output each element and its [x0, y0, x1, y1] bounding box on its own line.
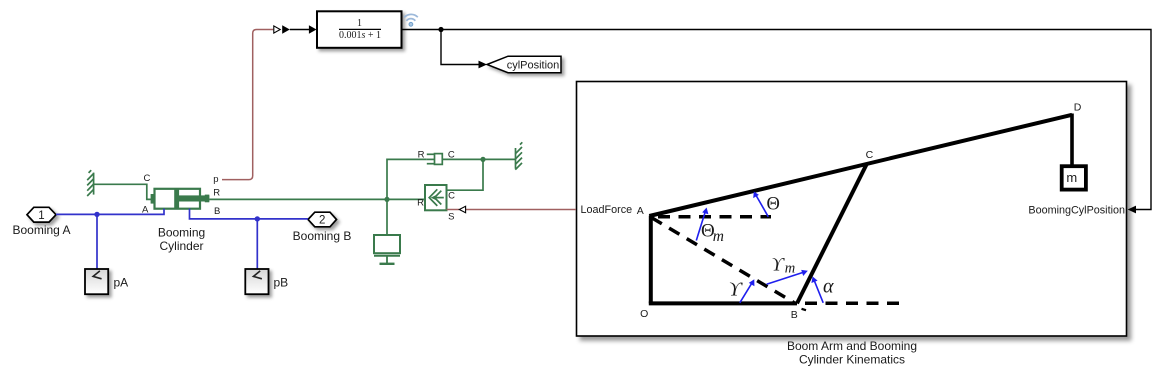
sketch: rope D to mass [1070, 114, 1074, 167]
svg-text:D: D [1074, 101, 1082, 113]
transfer fcn block [317, 11, 402, 48]
damper body [435, 154, 443, 165]
svg-text:C: C [144, 173, 151, 184]
sketch: mass m box [1062, 166, 1086, 189]
wire: LoadForce (red) from subsystem to force source S [466, 209, 576, 211]
wire: PS p-line (red) from cylinder p port up to converter [222, 30, 273, 180]
angle arrow gamma [740, 279, 755, 303]
arrowhead into transfer fcn [309, 25, 317, 33]
angle arrow theta_m [696, 208, 708, 241]
wire: branch to goto tag [441, 30, 479, 65]
svg-text:S: S [448, 212, 454, 223]
svg-text:R: R [418, 150, 425, 161]
mass block [374, 235, 400, 253]
wire: transfer fcn output across top [402, 30, 1152, 210]
svg-text:Boom Arm and Booming: Boom Arm and Booming [787, 339, 917, 353]
subsystem box Boom Arm and Booming Cylinder Kinematics [577, 82, 1127, 337]
wire: cylinder R to force source R (green) [209, 198, 425, 200]
hollow PS arrowhead at S [459, 206, 465, 212]
angle arrow theta [753, 192, 768, 217]
svg-text:m: m [785, 260, 795, 276]
svg-text:1: 1 [38, 210, 44, 222]
junction pA [94, 212, 99, 217]
wire: port1 to A port (blue) [56, 209, 164, 215]
angle arrow gamma_m [767, 270, 808, 284]
svg-text:pB: pB [274, 276, 289, 290]
wire: damper C to wall (green) [442, 158, 516, 160]
svg-text:Booming A: Booming A [12, 223, 70, 237]
wire: down to pA sensor [96, 214, 98, 269]
svg-text:Booming B: Booming B [293, 229, 352, 243]
sketch: tick near B [802, 309, 807, 310]
svg-text:0.001s + 1: 0.001s + 1 [339, 30, 381, 41]
sketch: boom A-C-D [649, 115, 1072, 216]
svg-text:Booming: Booming [158, 226, 205, 240]
sketch: dashed diagonal A-B [652, 218, 795, 303]
svg-text:α: α [823, 275, 834, 297]
svg-text:B: B [791, 309, 798, 321]
sensor block pA [85, 269, 108, 294]
svg-text:LoadForce: LoadForce [581, 204, 633, 216]
svg-text:Θ: Θ [767, 195, 780, 215]
svg-text:m: m [713, 228, 724, 245]
svg-text:A: A [637, 205, 644, 217]
junction on damper C line [480, 157, 485, 162]
wire: into transfer fcn [290, 29, 309, 31]
svg-text:Cylinder: Cylinder [159, 239, 203, 253]
svg-text:ϒ: ϒ [729, 280, 743, 301]
svg-text:Cylinder Kinematics: Cylinder Kinematics [799, 353, 905, 367]
hollow PS arrowhead [274, 26, 280, 33]
angle arrow alpha [811, 277, 823, 303]
wire: B port to port2 (blue) [190, 209, 309, 219]
wall fixed anchor left [87, 170, 94, 196]
svg-text:cylPosition: cylPosition [507, 60, 560, 72]
sketch: cylinder line B-C [797, 164, 867, 304]
svg-text:2: 2 [319, 215, 325, 227]
wire: vertical through junction (damper R above, mass below) [387, 159, 427, 235]
arrowhead into goto tag [479, 61, 488, 69]
wifi logging badge [404, 14, 418, 21]
wire: wall to cylinder C port [94, 184, 151, 199]
svg-text:1: 1 [357, 18, 362, 29]
solid arrowhead after converter [282, 25, 290, 33]
wire: down to pB sensor [256, 219, 258, 269]
svg-text:p: p [213, 174, 218, 185]
sensor block pB [245, 269, 268, 294]
svg-text:C: C [866, 149, 874, 161]
sketch: link OA [649, 216, 653, 304]
svg-text:R: R [417, 197, 424, 208]
goto tag cylPosition [487, 56, 561, 72]
svg-text:C: C [448, 191, 455, 202]
svg-text:B: B [214, 206, 220, 217]
damper R flange [427, 154, 435, 163]
svg-text:m: m [1066, 170, 1077, 185]
wire: junction down to force source C [447, 159, 484, 190]
sketch: dashed horizontal at A [658, 215, 771, 219]
sketch: link OB [649, 301, 797, 305]
Booming Cylinder block [151, 189, 210, 209]
junction on output [438, 27, 443, 32]
svg-text:BoomingCylPosition: BoomingCylPosition [1028, 205, 1125, 217]
arrowhead into BoomingCylPosition [1128, 206, 1136, 214]
svg-text:R: R [213, 188, 220, 199]
port 1 hexagon [27, 207, 56, 222]
force source block [425, 185, 447, 210]
port 2 hexagon [308, 212, 337, 227]
sketch: dashed horizontal at B [805, 301, 901, 305]
svg-text:O: O [640, 308, 648, 320]
junction on R line [384, 197, 389, 202]
mechanical reference ground [386, 256, 388, 264]
junction pB [255, 216, 260, 221]
wall fixed anchor right [515, 142, 522, 169]
svg-text:pA: pA [114, 276, 129, 290]
